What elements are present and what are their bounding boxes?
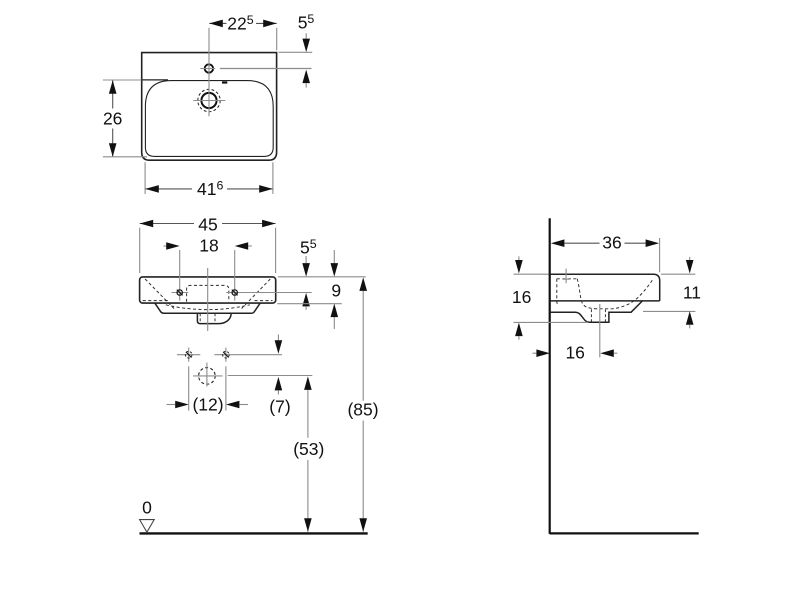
dimension 11 xyxy=(689,257,691,260)
svg-text:16: 16 xyxy=(512,287,531,307)
svg-text:11: 11 xyxy=(683,283,701,303)
dimension 41-6 arrowheads xyxy=(145,185,159,193)
dimension 16 (bottom) xyxy=(533,352,537,354)
rear deck ledge line (top view) xyxy=(142,79,168,81)
extension lines for (12) xyxy=(188,366,190,410)
washbasin slab outline (front view) xyxy=(140,277,276,303)
dimension (7) arrows xyxy=(277,335,279,341)
dimension 22-5 arrowheads xyxy=(209,20,223,28)
reference lines right side xyxy=(661,273,695,275)
wall line xyxy=(549,218,551,534)
svg-text:(7): (7) xyxy=(269,396,290,416)
dashed bowl bottom left segment (front view) xyxy=(143,300,170,302)
drain hole (top view) xyxy=(201,93,216,108)
template drain crosshairs xyxy=(193,375,223,377)
extension line for 36 xyxy=(659,238,661,272)
svg-text:45: 45 xyxy=(198,215,217,235)
svg-text:16: 16 xyxy=(565,343,584,363)
center line (front view) xyxy=(207,268,209,331)
dimension 22-5 line xyxy=(209,22,226,24)
overflow slot mark (top view) xyxy=(222,81,227,83)
underbody trapezoid (front view) xyxy=(155,303,260,313)
dimension 26 arrowheads xyxy=(109,80,117,94)
floor datum triangle xyxy=(140,520,155,533)
extension line right edge for 22-5 xyxy=(276,28,278,51)
svg-text:(12): (12) xyxy=(192,395,223,415)
template fixing hole right xyxy=(214,348,282,362)
drain boss outline (front view) xyxy=(197,313,231,323)
dimension (53) vertical line xyxy=(307,380,309,438)
svg-text:9: 9 xyxy=(331,281,341,301)
leader line from faucet center to 5.5 dimension xyxy=(220,68,312,70)
dashed bowl slope diagonal left (front view) xyxy=(145,279,174,309)
dimension 5-5 (front view) xyxy=(305,256,307,263)
extension lines for 41-6 xyxy=(144,162,146,194)
underbody profile (side view) xyxy=(550,301,643,322)
dimension 36 xyxy=(564,242,599,244)
drain hole dashed pilot circle (top view) xyxy=(198,89,220,111)
svg-text:0: 0 xyxy=(142,498,152,518)
drain crosshair horizontal (top view) xyxy=(193,100,225,102)
dashed overflow channel top (side view) xyxy=(557,278,578,280)
vertical centerline through faucet and drain (top view) xyxy=(208,28,210,117)
dimension 26 line xyxy=(112,80,114,108)
dimension 18 xyxy=(164,245,176,247)
template fixing hole left xyxy=(177,348,200,362)
dashed drain pipe edges (side view) xyxy=(590,309,592,322)
extension line slab bottom (front view) xyxy=(277,303,342,305)
floor line (front view) xyxy=(140,532,368,534)
dashed inner pocket outline (front view) xyxy=(187,285,229,301)
dimension 41-6 line xyxy=(145,188,192,190)
faucet hole (top view) xyxy=(205,64,213,72)
svg-text:36: 36 xyxy=(602,233,621,253)
dimension (85) vertical line xyxy=(362,282,364,401)
extension lines for 26 xyxy=(103,79,142,81)
mounting hole left (front view) xyxy=(172,285,189,301)
extension line slab top (front view) xyxy=(278,276,366,278)
dashed drain pipe edges (front view) xyxy=(199,313,201,323)
svg-text:26: 26 xyxy=(103,109,122,129)
faucet crosshair horizontal (top view) xyxy=(200,68,215,70)
dashed bowl back edge (side view) xyxy=(557,279,559,306)
svg-text:18: 18 xyxy=(199,236,218,256)
svg-text:(53): (53) xyxy=(293,439,324,459)
faucet hole centerline cross (side view) xyxy=(565,269,567,284)
dashed bowl bottom arc (front view) xyxy=(166,305,250,310)
dimension 16 (left) xyxy=(518,256,520,260)
template drain circle dashed xyxy=(199,368,216,385)
mounting hole right (front view) xyxy=(226,285,311,301)
drain centerline (side view) xyxy=(599,304,601,357)
floor line (side view) xyxy=(550,532,699,534)
dashed bowl bottom right segment (front view) xyxy=(255,300,273,302)
extension line from rim top edge xyxy=(279,51,313,53)
svg-text:(85): (85) xyxy=(347,400,378,420)
reference lines left of wall xyxy=(514,273,549,275)
dimension 5-5 (top view) arrow down xyxy=(305,33,307,39)
washbasin outer rim outline (top view) xyxy=(142,53,277,161)
dimension 9 xyxy=(333,250,335,263)
dimension (12) arrows xyxy=(167,404,176,406)
dashed bowl slope diagonal right (front view) xyxy=(242,279,271,309)
inner bowl outline (top view) xyxy=(145,81,273,157)
dashed bowl front curve (side view) xyxy=(577,279,652,309)
washbasin slab profile (side view) xyxy=(550,274,660,301)
dimension 5-5 (top view) arrow up xyxy=(302,70,310,84)
leader from drain to (53) xyxy=(228,375,313,377)
dimension 45 xyxy=(140,223,194,225)
